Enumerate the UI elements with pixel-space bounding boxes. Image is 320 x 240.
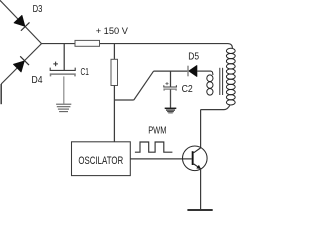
svg-text:C1: C1 — [81, 67, 90, 78]
oscillator box U1 — [72, 142, 131, 176]
ground (earth) below emitter — [187, 209, 212, 211]
wire D4 diagonal from left edge to node A — [1, 44, 41, 84]
wire D3 anode diagonal from top-left corner to node A — [0, 0, 42, 43]
wire C2 branch drop — [170, 71, 172, 87]
wire diagonal up to D5 line — [134, 71, 154, 100]
wire D5 anode to transformer primary — [197, 70, 211, 72]
wire bus to resistor R-bias drop — [113, 44, 115, 60]
svg-text:PWM: PWM — [148, 125, 166, 137]
wire secondary bottom to collector vertical — [201, 105, 231, 148]
wire C1 to ground (gray) — [63, 76, 65, 103]
diode D4 — [14, 56, 30, 72]
wire D5 cathode horizontal — [154, 70, 188, 72]
svg-text:D4: D4 — [32, 74, 43, 86]
svg-text:D3: D3 — [33, 3, 43, 15]
wire resistor to oscillator — [113, 86, 115, 142]
wire left edge vertical stub — [0, 84, 2, 104]
svg-text:OSCILATOR: OSCILATOR — [78, 155, 123, 167]
svg-text:C2: C2 — [182, 83, 193, 95]
capacitor C2 (electrolytic) — [164, 82, 177, 91]
ground (earth) below C1 — [56, 104, 71, 111]
transformer T1 core — [220, 68, 223, 95]
capacitor C1 (electrolytic) — [50, 62, 75, 77]
transformer T1 primary winding (3 loops) — [207, 71, 213, 95]
wire +150V top bus from node A to transformer corner — [42, 44, 233, 49]
wire C2 to ground — [170, 89, 172, 107]
wire emitter down to ground — [200, 169, 202, 210]
diode D3 — [14, 15, 29, 30]
transformer T1 secondary winding (11 loops) — [226, 48, 235, 105]
wire C1 branch drop — [63, 44, 65, 71]
svg-text:D5: D5 — [188, 51, 199, 63]
diode D5 — [188, 66, 197, 77]
transistor Q1 (NPN) — [183, 146, 208, 171]
wire junction horizontal segment — [114, 99, 133, 101]
svg-text:+ 150 V: + 150 V — [96, 26, 129, 37]
resistor R-bias (unlabeled, vertical) — [111, 59, 118, 85]
PWM square wave symbol — [135, 142, 173, 152]
wire oscillator output to transistor base — [130, 158, 191, 160]
ground (signal) below C2 — [165, 108, 177, 113]
resistor R-series (unlabeled, horizontal) — [75, 40, 100, 46]
